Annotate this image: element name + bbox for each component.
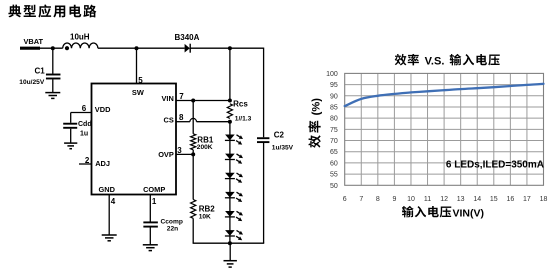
svg-text:6: 6 — [82, 104, 87, 113]
pin 8 CS wire with hop — [176, 113, 230, 122]
LED D4 — [225, 173, 243, 183]
ground below C1 — [45, 93, 60, 99]
svg-text:15: 15 — [490, 196, 498, 203]
ground below Ccomp — [143, 245, 158, 251]
chart: efficiency vs input voltage — [345, 73, 544, 185]
chart y tick labels — [326, 71, 338, 190]
wire Cdd branch — [70, 113, 72, 144]
LED D7 — [225, 230, 243, 240]
wire diode to corner — [190, 47, 263, 49]
svg-text:SW: SW — [132, 88, 144, 97]
svg-text:CS: CS — [164, 115, 174, 124]
svg-text:14: 14 — [473, 196, 481, 203]
svg-text:85: 85 — [330, 104, 338, 111]
wire output rail to C2 — [263, 48, 265, 244]
svg-text:4: 4 — [111, 197, 116, 206]
svg-text:Rcs: Rcs — [233, 100, 248, 109]
pin 1 COMP wire — [150, 195, 157, 245]
svg-text:22n: 22n — [167, 226, 178, 233]
svg-text:VBAT: VBAT — [24, 37, 44, 46]
svg-text:70: 70 — [330, 138, 338, 145]
svg-text:6 LEDs,ILED=350mA: 6 LEDs,ILED=350mA — [446, 160, 544, 171]
svg-text:GND: GND — [99, 185, 116, 194]
svg-text:5: 5 — [138, 76, 143, 85]
junction LED string to ground — [228, 241, 232, 245]
chart x tick labels — [343, 196, 548, 203]
svg-text:VIN(V): VIN(V) — [453, 207, 485, 219]
svg-text:16: 16 — [506, 196, 514, 203]
LED D3 — [225, 154, 243, 164]
svg-text:10: 10 — [407, 196, 415, 203]
LED D6 — [225, 211, 243, 221]
pin 4 GND wire — [109, 195, 116, 236]
svg-text:8: 8 — [179, 113, 184, 122]
svg-text:100: 100 — [326, 71, 338, 78]
IC U1 — [92, 76, 177, 195]
svg-text:200K: 200K — [197, 144, 213, 151]
inductor L1 10uH — [63, 33, 98, 51]
svg-text:13: 13 — [457, 196, 465, 203]
svg-text:60: 60 — [330, 160, 338, 167]
svg-text:1u/35V: 1u/35V — [272, 145, 294, 152]
chart annotation 6 LEDs,ILED=350mA — [446, 160, 544, 171]
svg-text:18: 18 — [540, 196, 548, 203]
svg-text:VDD: VDD — [95, 105, 111, 114]
svg-text:95: 95 — [330, 82, 338, 89]
diode D1 B340A — [175, 33, 200, 53]
svg-text:10K: 10K — [199, 214, 211, 221]
wire VBAT to inductor — [40, 47, 63, 49]
wire divider top segment — [192, 101, 194, 134]
svg-text:12: 12 — [440, 196, 448, 203]
svg-text:Cdd: Cdd — [78, 121, 92, 128]
svg-text:11: 11 — [424, 196, 431, 203]
junction OVP divider tap — [191, 150, 195, 200]
svg-text:10uH: 10uH — [70, 33, 90, 42]
chart x axis label 输入电压VIN(V) — [402, 206, 484, 219]
wire C1 branch — [52, 48, 54, 92]
svg-text:ADJ: ADJ — [95, 159, 110, 168]
svg-text:VIN: VIN — [161, 94, 173, 103]
ground below GND pin — [102, 235, 117, 241]
capacitor C1 10u/25V — [19, 67, 60, 86]
svg-text:COMP: COMP — [143, 185, 165, 194]
svg-text:1u: 1u — [80, 131, 88, 138]
svg-text:10u/25V: 10u/25V — [19, 79, 45, 86]
svg-text:(%): (%) — [311, 98, 323, 116]
capacitor C2 1u/35V — [257, 130, 294, 151]
svg-text:RB2: RB2 — [199, 204, 216, 213]
svg-text:9: 9 — [392, 196, 396, 203]
wire bottom rail — [193, 242, 265, 244]
svg-text:C1: C1 — [35, 67, 46, 76]
wire SW pin 5 — [136, 48, 138, 83]
ground below Cdd — [64, 143, 77, 149]
svg-text:2: 2 — [85, 156, 90, 165]
LED D2 — [225, 135, 243, 145]
svg-text:B340A: B340A — [175, 33, 200, 42]
junction SW tap — [135, 46, 139, 50]
svg-text:1//1.3: 1//1.3 — [235, 116, 252, 123]
title 典型应用电路 — [8, 4, 96, 17]
junction Rcs top tap — [228, 46, 232, 50]
svg-text:3: 3 — [177, 146, 182, 155]
resistor RB1 200K — [191, 134, 214, 151]
svg-text:55: 55 — [330, 172, 338, 179]
svg-text:V.S.: V.S. — [425, 55, 445, 67]
svg-text:50: 50 — [330, 183, 338, 190]
capacitor Cdd 1u — [63, 121, 91, 138]
svg-text:7: 7 — [359, 196, 363, 203]
capacitor Ccomp 22n — [143, 219, 183, 233]
pin 3 OVP wire — [176, 146, 193, 155]
LED D5 — [225, 192, 243, 202]
svg-text:OVP: OVP — [158, 150, 174, 159]
node VBAT terminal — [20, 37, 44, 48]
svg-text:65: 65 — [330, 149, 338, 156]
svg-text:80: 80 — [330, 116, 338, 123]
ground main — [224, 243, 237, 267]
svg-text:Ccomp: Ccomp — [161, 219, 183, 226]
svg-text:6: 6 — [343, 196, 347, 203]
resistor RB2 10K — [191, 200, 216, 221]
wire LED string — [229, 122, 231, 244]
chart curve: efficiency — [345, 84, 544, 106]
chart title 效率 V.S. 输入电压 — [395, 54, 500, 67]
resistor Rcs 1//1.3 — [227, 99, 251, 124]
svg-text:17: 17 — [523, 196, 531, 203]
pin 7 VIN wire — [176, 92, 230, 101]
wire RB2 to bottom rail — [192, 218, 194, 243]
svg-text:7: 7 — [179, 92, 184, 101]
svg-text:C2: C2 — [274, 130, 285, 139]
wire down to Rcs node — [229, 48, 231, 100]
pin 6 VDD stub — [71, 104, 92, 113]
pin 2 ADJ stub — [79, 156, 92, 165]
svg-text:8: 8 — [376, 196, 380, 203]
svg-text:1: 1 — [152, 197, 157, 206]
svg-text:75: 75 — [330, 127, 338, 134]
wire inductor to diode — [98, 47, 185, 49]
junction VIN divider tap — [191, 99, 195, 103]
chart y axis label 效率 (%) — [308, 98, 322, 148]
svg-text:90: 90 — [330, 93, 338, 100]
junction C1 tap — [51, 46, 55, 50]
